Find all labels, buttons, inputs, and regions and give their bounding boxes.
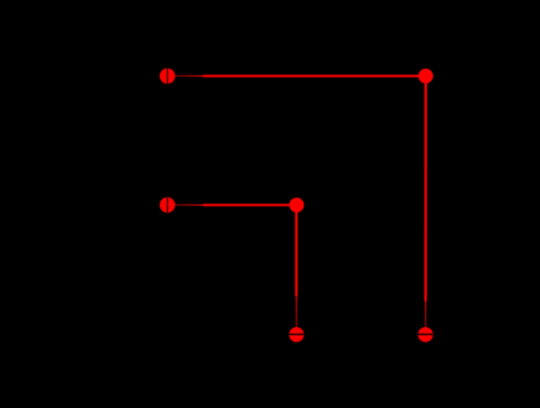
pin P2 (terminal circle with vertical slot) bbox=[160, 197, 175, 213]
junction J2 bbox=[289, 198, 304, 213]
wire stub: thin fade from pin P1 rightward bbox=[175, 75, 205, 77]
wire: vertical from junction J1 downward bbox=[424, 76, 427, 301]
wire: horizontal from fade end to junction J1 bbox=[203, 75, 426, 78]
pad PAD2 (terminal circle with horizontal slot) bbox=[418, 327, 434, 342]
pad PAD1 (terminal circle with horizontal slot) bbox=[289, 327, 305, 342]
pin P1 (terminal circle with vertical slot) bbox=[160, 68, 175, 84]
wire: horizontal from fade end to junction J2 bbox=[203, 204, 297, 207]
wire stub: thin fade down into pad PAD2 bbox=[425, 300, 427, 329]
junction J1 bbox=[418, 69, 433, 84]
wire stub: thin fade from pin P2 rightward bbox=[175, 204, 205, 206]
wire stub: thin fade down into pad PAD1 bbox=[295, 295, 297, 329]
wire: vertical from junction J2 downward bbox=[295, 205, 298, 296]
